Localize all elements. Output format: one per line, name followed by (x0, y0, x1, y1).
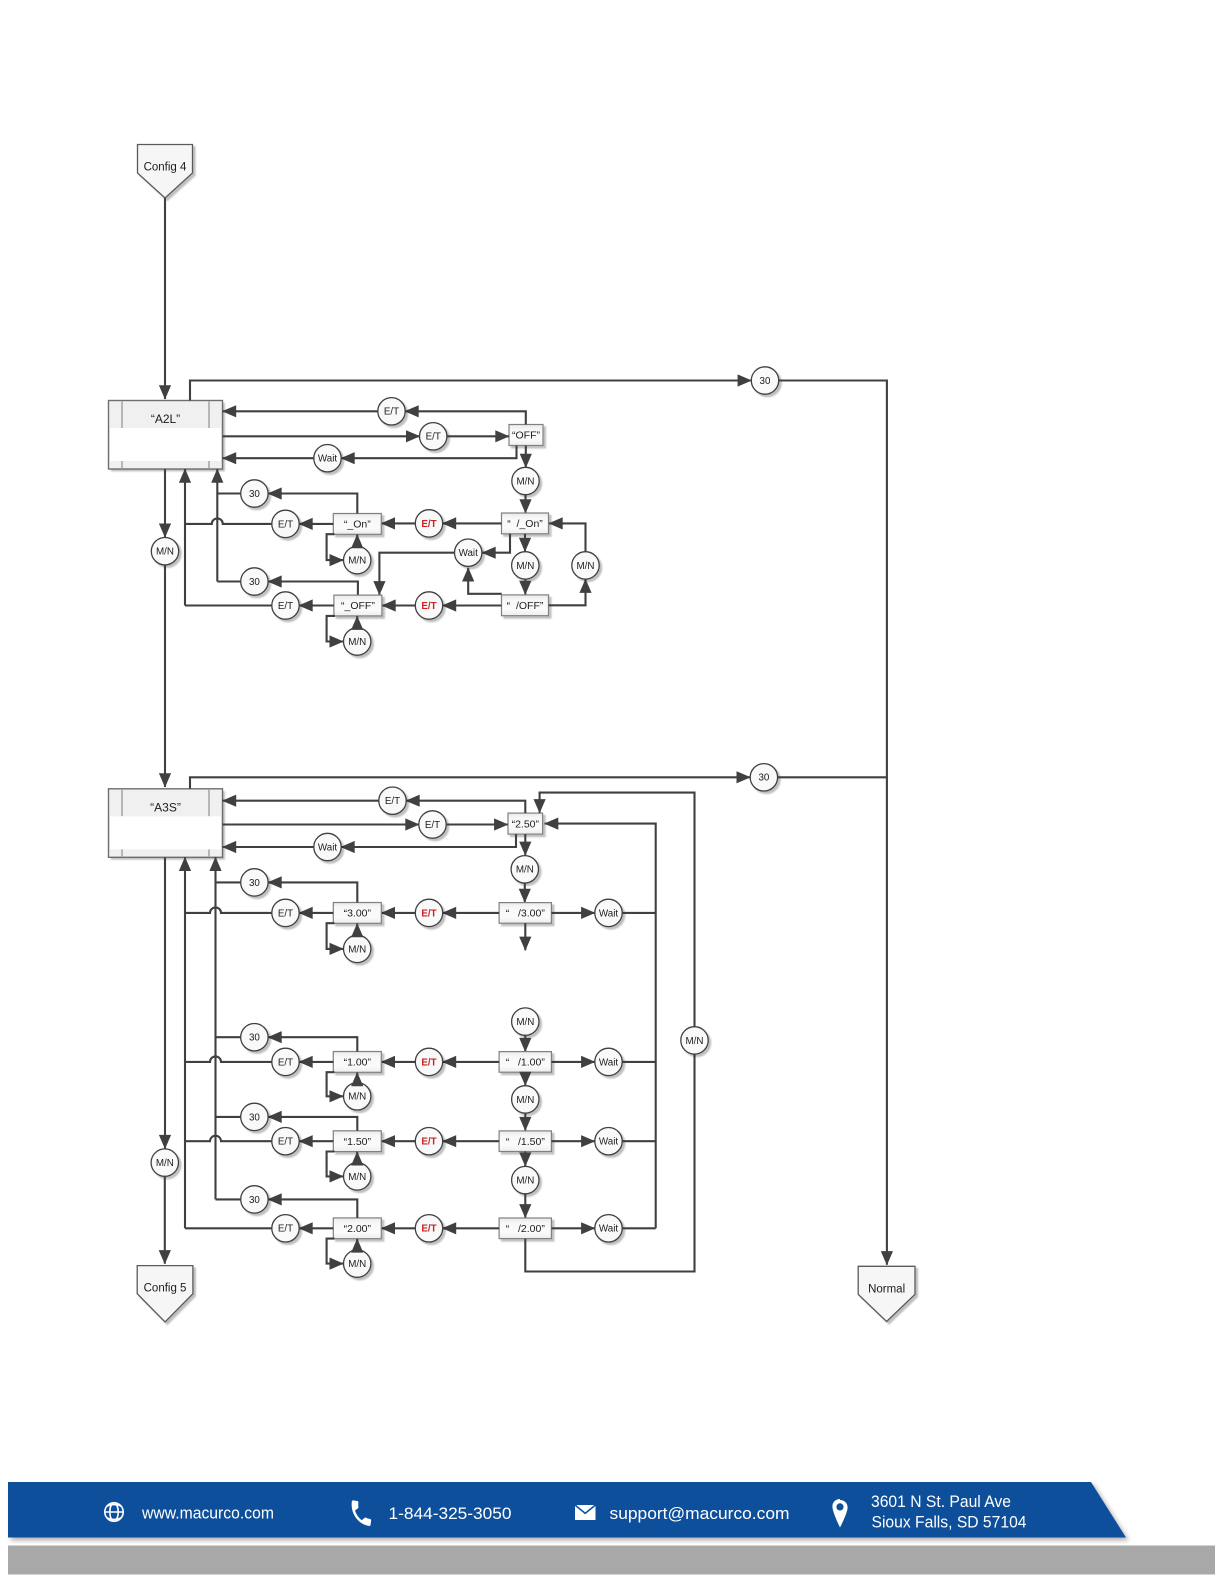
svg-text:30: 30 (249, 489, 260, 500)
svg-text:“_OFF”: “_OFF” (341, 600, 375, 612)
svg-text:“_On”: “_On” (344, 519, 371, 531)
svg-text:Wait: Wait (459, 548, 479, 559)
svg-text:Wait: Wait (599, 1137, 619, 1148)
svg-text:M/N: M/N (686, 1036, 704, 1047)
svg-text:M/N: M/N (517, 476, 535, 487)
svg-text:support@macurco.com: support@macurco.com (610, 1504, 790, 1523)
svg-text:Wait: Wait (599, 1224, 619, 1235)
svg-text:M/N: M/N (348, 944, 366, 955)
svg-text:Wait: Wait (318, 842, 338, 853)
svg-text:Normal: Normal (868, 1283, 905, 1295)
svg-text:Sioux Falls, SD 57104: Sioux Falls, SD 57104 (872, 1513, 1027, 1532)
svg-text:E/T: E/T (421, 1057, 436, 1068)
svg-text:M/N: M/N (516, 865, 534, 876)
svg-text:www.macurco.com: www.macurco.com (141, 1504, 274, 1523)
svg-text:Wait: Wait (599, 1057, 619, 1068)
svg-text:“1.50”: “1.50” (344, 1136, 372, 1148)
svg-text:“2.00”: “2.00” (344, 1223, 372, 1235)
svg-text:“ /2.00”: “ /2.00” (506, 1223, 546, 1235)
svg-text:“2.50”: “2.50” (512, 818, 540, 830)
svg-text:“ /_On”: “ /_On” (507, 518, 543, 530)
svg-text:E/T: E/T (278, 908, 293, 919)
svg-text:“1.00”: “1.00” (344, 1057, 372, 1069)
svg-text:M/N: M/N (577, 561, 595, 572)
svg-text:M/N: M/N (348, 1259, 366, 1270)
svg-text:M/N: M/N (516, 561, 534, 572)
svg-text:1-844-325-3050: 1-844-325-3050 (389, 1504, 512, 1523)
svg-text:E/T: E/T (278, 1137, 293, 1148)
svg-text:M/N: M/N (516, 1017, 534, 1028)
svg-text:M/N: M/N (156, 1158, 174, 1169)
svg-text:E/T: E/T (425, 820, 440, 831)
svg-text:E/T: E/T (421, 908, 436, 919)
svg-text:Wait: Wait (318, 454, 338, 465)
svg-text:E/T: E/T (421, 1137, 436, 1148)
svg-text:E/T: E/T (421, 1224, 436, 1235)
svg-text:“ /3.00”: “ /3.00” (506, 908, 546, 920)
svg-text:“3.00”: “3.00” (344, 908, 372, 920)
svg-text:M/N: M/N (516, 1095, 534, 1106)
svg-text:M/N: M/N (348, 637, 366, 648)
svg-text:E/T: E/T (385, 796, 400, 807)
svg-text:Wait: Wait (599, 908, 619, 919)
svg-text:“OFF”: “OFF” (512, 430, 540, 442)
svg-text:E/T: E/T (278, 1057, 293, 1068)
svg-text:E/T: E/T (421, 519, 436, 530)
svg-text:E/T: E/T (278, 601, 293, 612)
svg-text:“ /OFF”: “ /OFF” (507, 600, 544, 612)
svg-text:M/N: M/N (516, 1176, 534, 1187)
svg-text:E/T: E/T (384, 407, 399, 418)
svg-text:E/T: E/T (278, 519, 293, 530)
svg-text:M/N: M/N (348, 1172, 366, 1183)
svg-text:M/N: M/N (348, 1092, 366, 1103)
svg-text:30: 30 (760, 376, 771, 387)
svg-text:E/T: E/T (278, 1224, 293, 1235)
svg-text:“A2L”: “A2L” (151, 412, 180, 426)
svg-text:“A3S”: “A3S” (150, 800, 181, 814)
svg-text:E/T: E/T (426, 432, 441, 443)
svg-text:30: 30 (249, 1033, 260, 1044)
svg-text:Config 5: Config 5 (144, 1283, 187, 1295)
svg-text:30: 30 (758, 773, 769, 784)
svg-text:30: 30 (249, 1195, 260, 1206)
svg-text:E/T: E/T (421, 601, 436, 612)
svg-text:30: 30 (249, 878, 260, 889)
svg-text:30: 30 (249, 577, 260, 588)
svg-text:“ /1.50”: “ /1.50” (506, 1136, 546, 1148)
svg-text:“ /1.00”: “ /1.00” (506, 1057, 546, 1069)
svg-text:Config 4: Config 4 (144, 162, 187, 174)
svg-text:M/N: M/N (156, 547, 174, 558)
svg-text:M/N: M/N (348, 556, 366, 567)
svg-text:30: 30 (249, 1112, 260, 1123)
svg-text:3601 N St. Paul Ave: 3601 N St. Paul Ave (871, 1492, 1011, 1511)
